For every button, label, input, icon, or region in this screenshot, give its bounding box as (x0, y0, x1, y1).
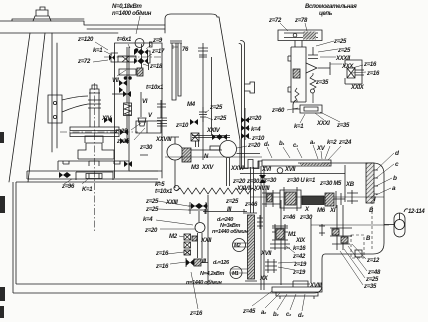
svg-text:z=25: z=25 (145, 199, 159, 205)
svg-text:z=16: z=16 (189, 311, 203, 317)
svg-text:XXXI: XXXI (316, 121, 330, 127)
z12/48/25/35 labels right (363, 258, 381, 290)
svg-text:z=25: z=25 (225, 199, 239, 205)
frame interior details left (112, 75, 167, 171)
svg-text:z=25: z=25 (365, 277, 379, 283)
svg-text:z=25: z=25 (116, 139, 130, 145)
clutch cluster M2 (yoke + idler) (188, 202, 208, 233)
svg-text:z=46: z=46 (244, 202, 258, 208)
svg-text:z=25: z=25 (145, 207, 159, 213)
gear stack bottom-center (184, 233, 202, 258)
svg-text:t=6x1: t=6x1 (117, 37, 132, 43)
svg-text:z=20: z=20 (232, 179, 246, 185)
svg-text:b: b (393, 175, 397, 182)
svg-text:XVIII: XVIII (309, 283, 322, 289)
motor texts (186, 217, 248, 286)
svg-text:XXIX: XXIX (350, 85, 365, 91)
k4 column right gears (241, 117, 249, 139)
M4 gear and XXIV cluster (191, 57, 230, 147)
svg-text:K=1: K=1 (82, 187, 93, 193)
svg-text:z=30: z=30 (263, 178, 277, 184)
svg-text:z=30: z=30 (246, 179, 260, 185)
svg-text:XIX: XIX (295, 238, 306, 244)
vertical shafts center (261, 166, 264, 290)
svg-text:n=1440 об/мин: n=1440 об/мин (186, 279, 222, 286)
aux chain structure top-right (278, 30, 364, 113)
gearbox band labels (143, 178, 376, 270)
svg-text:XXX: XXX (341, 64, 354, 70)
svg-text:z=78: z=78 (294, 18, 308, 24)
bottom leaders (64, 179, 305, 311)
svg-text:XXVIII: XXVIII (253, 186, 270, 192)
svg-text:k=1: k=1 (93, 48, 103, 54)
svg-text:N=0,18кВт: N=0,18кВт (112, 4, 142, 10)
XIX labels right (259, 232, 307, 282)
XVIII vertical stack right (330, 205, 352, 250)
svg-text:z=30 М5: z=30 М5 (319, 181, 342, 187)
svg-text:VI: VI (142, 99, 148, 105)
worm XIII (186, 258, 208, 267)
body outline right (240, 161, 384, 259)
connector 12-114 (311, 209, 425, 237)
rail on body top (241, 160, 331, 174)
head housing outline (165, 14, 258, 168)
svg-text:XVII: XVII (284, 167, 296, 173)
motors M1 M2 circles (230, 239, 246, 279)
svg-text:z=18: z=18 (149, 64, 163, 70)
rail top labels and leaders (261, 140, 352, 173)
svg-text:XXVIII: XXVIII (155, 137, 172, 143)
svg-text:М1: М1 (232, 271, 239, 277)
column right edge (52, 33, 57, 152)
svg-text:d₁: d₁ (264, 142, 269, 148)
bottom labels (61, 184, 322, 319)
svg-text:z=30: z=30 (139, 145, 153, 151)
svg-text:XXVII: XXVII (236, 186, 251, 192)
svg-text:XI: XI (329, 208, 336, 214)
svg-text:k=2: k=2 (327, 140, 337, 146)
central labels (101, 85, 265, 172)
svg-text:z=16: z=16 (366, 71, 380, 77)
svg-text:z=25: z=25 (333, 39, 347, 45)
svg-text:XXIII: XXIII (165, 200, 178, 206)
svg-text:12-114: 12-114 (408, 209, 425, 215)
svg-text:t=10x1: t=10x1 (155, 189, 173, 195)
main feed gearbox band (240, 174, 384, 212)
svg-text:z=35: z=35 (363, 284, 377, 290)
svg-text:XVII: XVII (260, 251, 272, 257)
inner frame (115, 43, 163, 178)
saddle / table bars (27, 161, 158, 180)
labels (first batch) (77, 4, 357, 84)
svg-text:М4: М4 (187, 102, 196, 108)
pulley lens (70, 127, 119, 137)
head rear wall (239, 41, 245, 169)
bracket (48, 95, 88, 123)
svg-text:z=25: z=25 (114, 129, 128, 135)
svg-text:z=30 U k=1: z=30 U k=1 (286, 178, 316, 184)
svg-text:XX: XX (259, 276, 269, 282)
svg-text:z=46: z=46 (282, 215, 296, 221)
belt strip (230, 167, 257, 281)
svg-text:М2: М2 (234, 243, 241, 249)
svg-text:XXIV: XXIV (206, 128, 221, 134)
svg-text:k=1: k=1 (294, 124, 304, 130)
cluster leaders (156, 201, 195, 264)
svg-text:N=4,2кВт: N=4,2кВт (200, 271, 224, 277)
svg-text:z=10: z=10 (251, 136, 265, 142)
aux leader lines (280, 23, 366, 123)
svg-text:k=16: k=16 (293, 246, 306, 252)
svg-text:t=10x1: t=10x1 (146, 85, 164, 91)
svg-text:VII: VII (112, 78, 119, 84)
svg-text:XXV: XXV (201, 165, 214, 171)
column outer edge (9, 33, 45, 182)
svg-text:z=24: z=24 (338, 140, 352, 146)
svg-text:цепь: цепь (319, 11, 333, 17)
svg-text:z=48: z=48 (367, 270, 381, 276)
svg-text:z=12: z=12 (366, 258, 380, 264)
svg-text:z=20: z=20 (247, 143, 261, 149)
svg-text:k=5: k=5 (155, 182, 165, 188)
svg-text:z=60: z=60 (271, 108, 285, 114)
telescopic screw / shaft I in head (170, 41, 208, 151)
svg-text:z=25: z=25 (209, 105, 223, 111)
svg-text:z=16: z=16 (155, 251, 169, 257)
XXIX gear box right (345, 60, 362, 84)
svg-text:XXVI: XXVI (230, 166, 244, 172)
svg-text:z=19: z=19 (292, 270, 306, 276)
svg-text:z=35: z=35 (336, 123, 350, 129)
svg-text:z=45: z=45 (242, 309, 256, 315)
bolt on arm (33, 7, 51, 21)
svg-text:n=1400 об/мин: n=1400 об/мин (112, 10, 152, 17)
table pedestal (48, 85, 119, 159)
svg-text:z=96: z=96 (61, 184, 75, 190)
svg-text:z=72: z=72 (77, 59, 91, 65)
spring zigzags aux (310, 73, 316, 103)
z=60 worm block (300, 105, 322, 113)
platform bottom right (272, 281, 322, 299)
svg-text:a₁: a₁ (310, 140, 315, 146)
svg-text:М6: М6 (317, 208, 326, 214)
svg-text:z=9: z=9 (152, 38, 163, 44)
svg-text:n=1440 об/мин: n=1440 об/мин (212, 228, 248, 235)
right gear cluster (XIX/XX) (257, 215, 325, 283)
spindle stack XIV (88, 89, 101, 127)
svg-text:z=10: z=10 (175, 123, 189, 129)
svg-text:М2: М2 (169, 234, 178, 240)
head side knob (245, 82, 255, 93)
svg-text:XIV: XIV (101, 116, 112, 122)
svg-text:z=16: z=16 (363, 62, 377, 68)
leader lines head labels (93, 16, 178, 76)
svg-text:d₁=126: d₁=126 (213, 260, 230, 266)
right rack and letters (366, 163, 378, 203)
svg-text:k=4: k=4 (251, 127, 261, 133)
svg-text:z=25: z=25 (337, 48, 351, 54)
svg-text:76: 76 (182, 47, 189, 53)
svg-text:z=20: z=20 (248, 116, 262, 122)
svg-text:z=19: z=19 (293, 262, 307, 268)
svg-text:XXXII: XXXII (335, 56, 350, 62)
head gear cluster (111, 39, 152, 79)
svg-text:z=72: z=72 (268, 18, 282, 24)
svg-text:b₁: b₁ (279, 141, 284, 147)
base outline (13, 161, 384, 293)
svg-text:ХВ: ХВ (345, 182, 355, 188)
svg-text:XVI: XVI (261, 167, 271, 173)
zigzag lead screw horizontal (176, 188, 256, 194)
svg-text:z=17: z=17 (151, 49, 165, 55)
svg-text:z=16: z=16 (155, 264, 169, 270)
svg-text:Вспомогательная: Вспомогательная (305, 4, 357, 10)
svg-text:z=35: z=35 (315, 80, 329, 86)
svg-text:z=120: z=120 (77, 37, 94, 43)
centerlines (60, 57, 163, 232)
svg-text:z=25: z=25 (213, 116, 227, 122)
dashed frame right (351, 196, 372, 258)
svg-text:М3: М3 (191, 165, 200, 171)
left margin scan marks (0, 132, 5, 318)
svg-text:z=42: z=42 (292, 254, 306, 260)
aux labels (268, 18, 380, 130)
svg-text:k=4: k=4 (143, 217, 153, 223)
svg-text:z=20: z=20 (144, 228, 158, 234)
svg-text:III: III (227, 207, 232, 213)
arm top (0, 19, 165, 33)
